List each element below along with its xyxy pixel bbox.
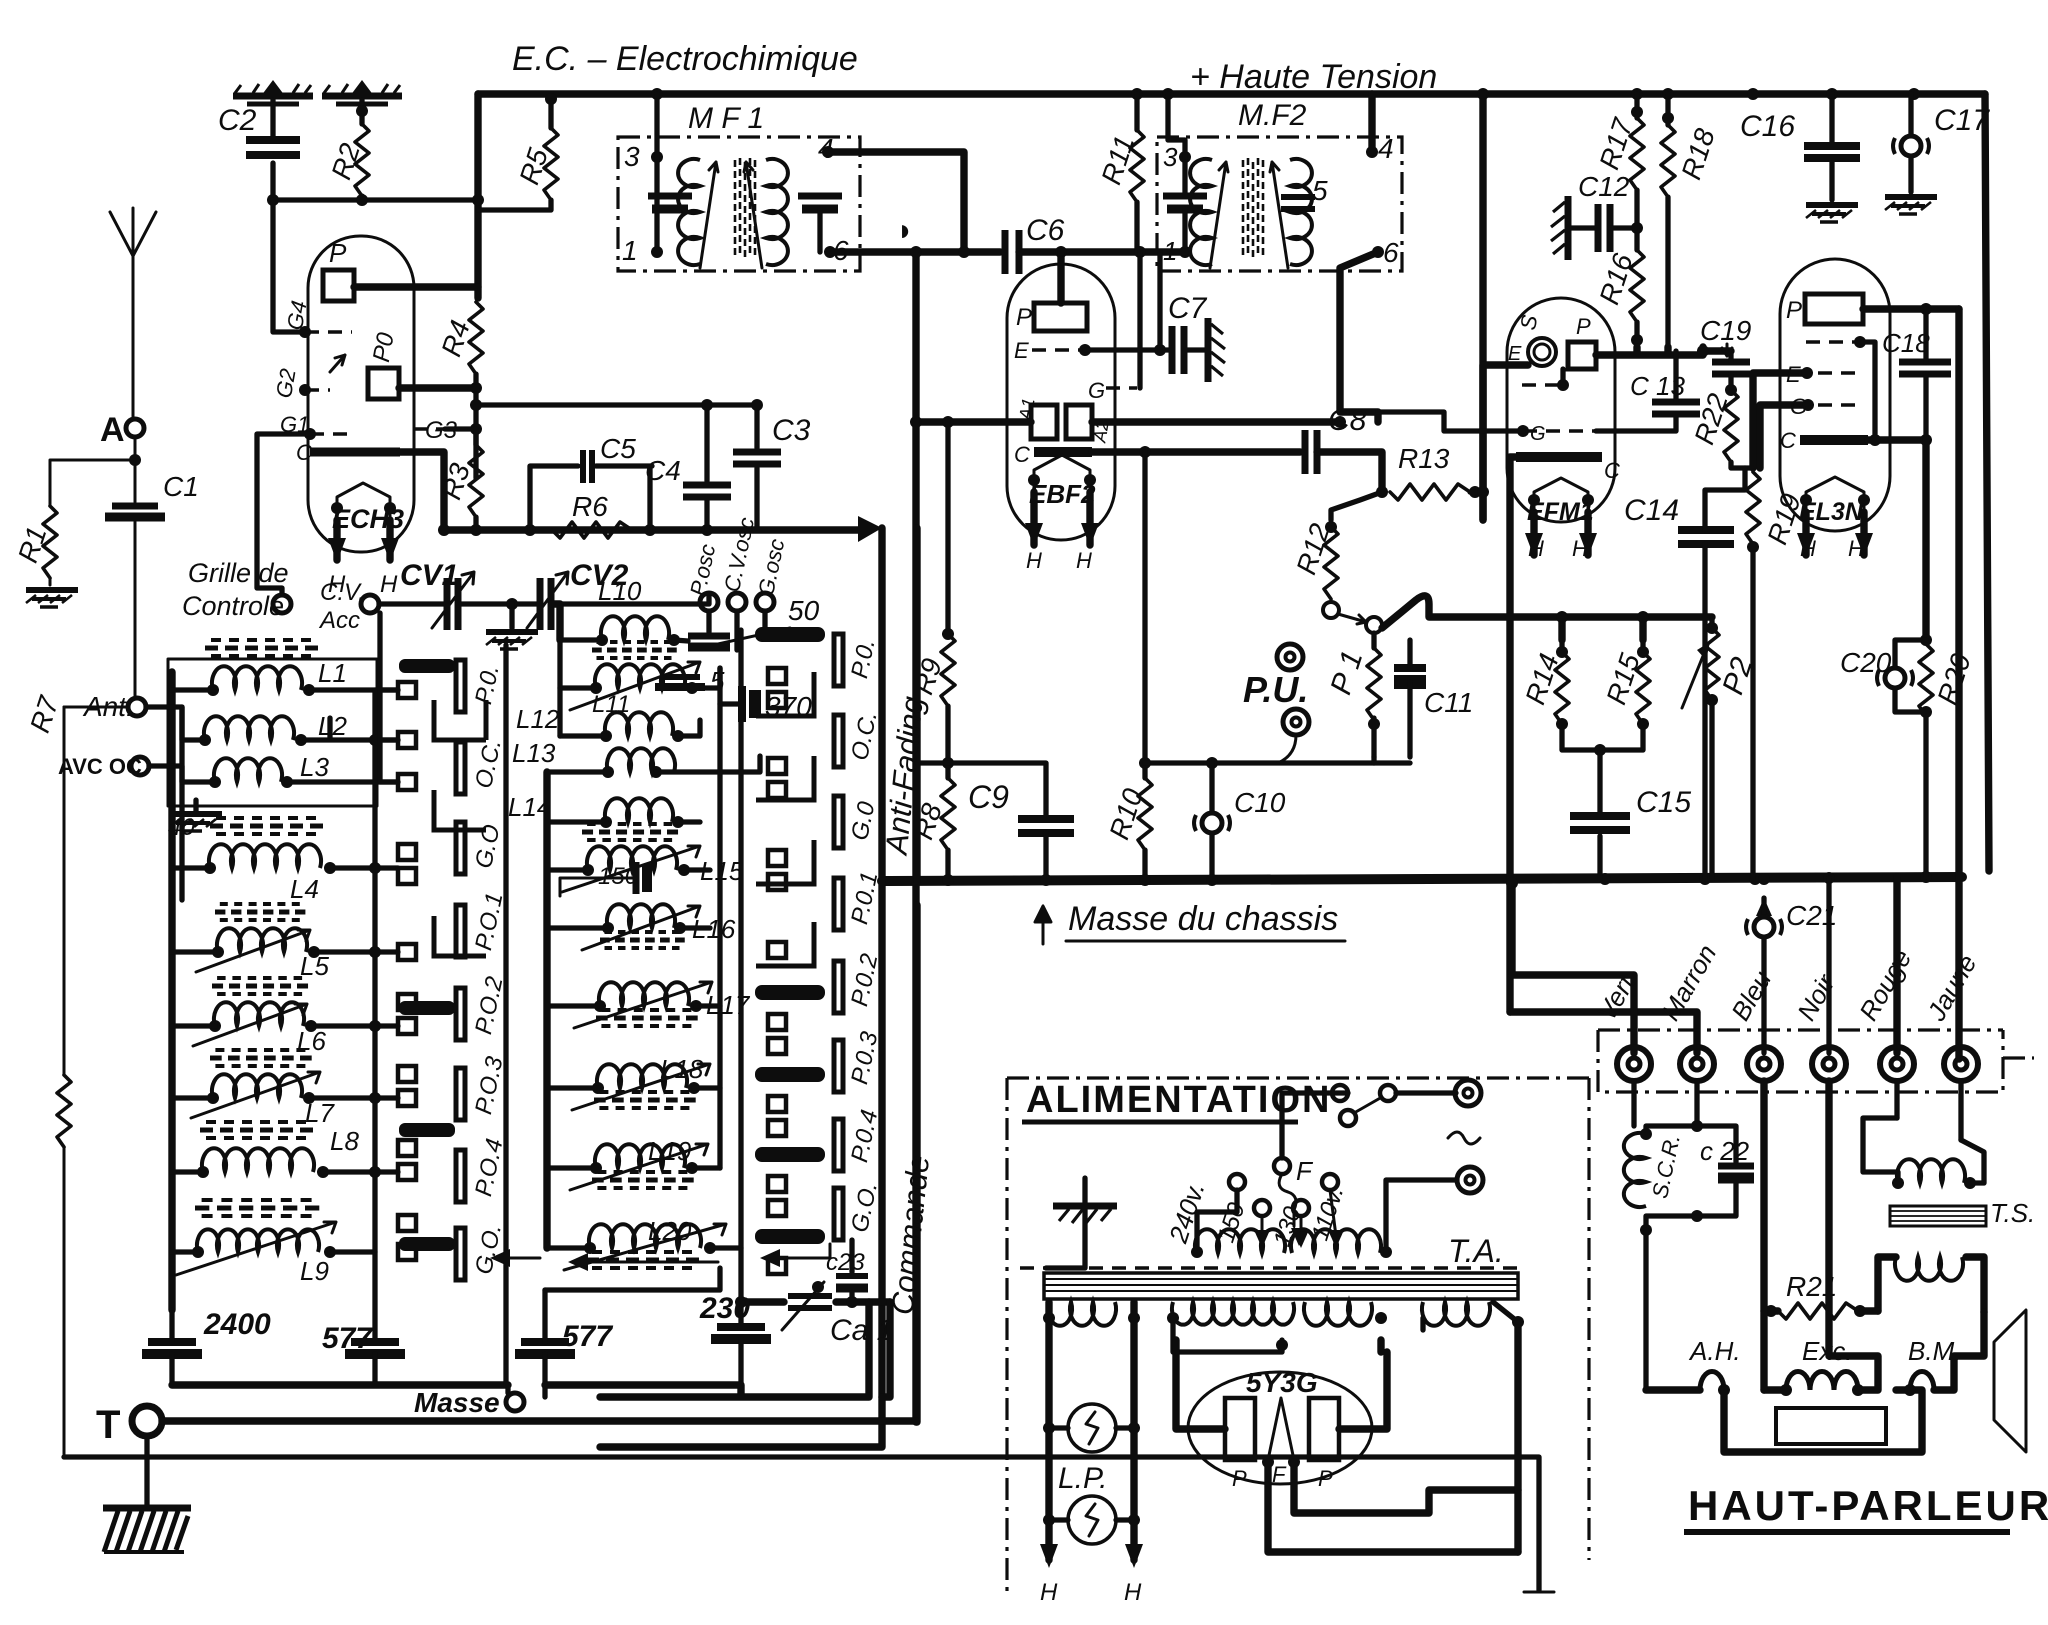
svg-text:5Y3G: 5Y3G	[1246, 1367, 1318, 1398]
cathode ECH3	[310, 448, 400, 457]
core L16	[600, 932, 690, 948]
resistor R12	[1331, 492, 1382, 520]
resistor R7	[63, 707, 66, 1457]
wire riser to CV	[380, 613, 398, 782]
variable capacitor CV2	[512, 594, 709, 604]
svg-text:E: E	[1508, 343, 1522, 365]
svg-text:P: P	[1232, 1466, 1247, 1491]
svg-text:T.S.: T.S.	[1990, 1198, 2035, 1228]
tube ECH3 envelope	[308, 236, 414, 552]
transformer MF1 box	[618, 137, 860, 271]
svg-text:L3: L3	[300, 752, 329, 782]
wire A2 right to EFM1 grid	[1092, 418, 1340, 425]
svg-text:C 13: C 13	[1630, 371, 1685, 401]
capacitor 370	[738, 686, 746, 722]
core L8	[200, 1122, 320, 1138]
heater arrows EFM1	[1534, 512, 1588, 555]
svg-text:G2: G2	[271, 367, 301, 400]
tuning arrows MF1	[700, 162, 762, 268]
svg-text:577: 577	[562, 1320, 613, 1353]
wire pin4 across	[828, 152, 964, 252]
svg-text:L2: L2	[318, 711, 347, 741]
wires down from terminals	[1634, 1081, 1961, 1140]
svg-text:C17: C17	[1934, 104, 1990, 137]
svg-text:Controle: Controle	[182, 591, 284, 621]
terminals	[1617, 1047, 1978, 1081]
coil MF2 secondary	[1290, 159, 1312, 265]
wire C11 bottom to row	[1374, 760, 1410, 765]
secondary LV right	[1422, 1302, 1490, 1326]
wire second lower	[64, 1457, 1539, 1590]
svg-text:R6: R6	[572, 491, 608, 522]
secondary LV left	[1048, 1302, 1116, 1326]
svg-text:C7: C7	[1168, 292, 1208, 325]
capacitor C13	[1652, 399, 1700, 406]
bus masse du chassis	[882, 877, 1962, 881]
electrode S	[1528, 338, 1556, 366]
capacitor MF2 right trimmer 5	[1281, 194, 1315, 200]
svg-text:C19: C19	[1700, 315, 1751, 346]
wire R14/R15 tops	[1382, 596, 1712, 640]
svg-text:A.H.: A.H.	[1688, 1336, 1741, 1366]
svg-text:c 22: c 22	[1700, 1136, 1750, 1166]
svg-text:R13: R13	[1398, 443, 1450, 474]
wire P0 to R4 junction	[399, 384, 476, 391]
switch contacts column left bank	[398, 682, 416, 1260]
svg-text:3: 3	[624, 141, 640, 172]
capacitor C17	[1908, 94, 1913, 192]
stator bars osc bank with labels	[834, 634, 843, 1240]
capacitor C19	[1712, 359, 1750, 366]
svg-text:1: 1	[622, 235, 638, 266]
fuse squiggle	[1448, 1132, 1480, 1144]
svg-text:C: C	[1780, 428, 1796, 453]
field coil S.C.R.	[1624, 1133, 1646, 1207]
svg-text:H: H	[1076, 548, 1092, 573]
svg-text:C20: C20	[1840, 647, 1892, 678]
core L6	[212, 978, 314, 994]
resistor R6	[552, 522, 632, 538]
ground above R2	[322, 80, 402, 104]
core TA	[1020, 1268, 1518, 1299]
svg-text:T: T	[96, 1403, 120, 1447]
trimmer 5	[660, 674, 700, 680]
coil L19 variable	[595, 1144, 685, 1168]
svg-text:C9: C9	[968, 779, 1009, 815]
heater arrows EL3N	[1806, 512, 1864, 555]
wire T drop to ground	[144, 1436, 149, 1505]
svg-text:3: 3	[1163, 142, 1178, 172]
wire plate node	[1596, 347, 1731, 355]
ground below R1	[26, 590, 78, 607]
coil L4	[209, 844, 321, 868]
field box	[1776, 1408, 1886, 1444]
core L1	[205, 640, 325, 656]
svg-text:C16: C16	[1740, 110, 1795, 143]
svg-text:C2: C2	[218, 104, 257, 137]
wire 230/C23 row	[741, 1298, 890, 1305]
capacitor C10	[1194, 813, 1230, 833]
core L4	[210, 818, 330, 834]
svg-text:C: C	[1014, 442, 1030, 467]
capacitor C2	[246, 136, 300, 144]
potentiometer P1	[1366, 617, 1382, 633]
stator bars left bank with labels	[456, 660, 465, 1280]
wire left riser x478	[474, 94, 481, 298]
rouge feed	[1893, 877, 1900, 1053]
capacitor C14	[1678, 526, 1734, 534]
svg-text:C14: C14	[1624, 494, 1679, 527]
wire plate right	[1863, 305, 1959, 312]
svg-text:40: 40	[168, 814, 195, 841]
cathode EL3N	[1800, 435, 1868, 445]
coil L6 variable	[214, 1002, 304, 1026]
electrode P square	[1568, 342, 1596, 369]
core L7	[210, 1050, 318, 1066]
svg-text:C6: C6	[1026, 214, 1065, 247]
svg-text:G: G	[1530, 423, 1546, 445]
plate P of ECH3	[323, 270, 354, 301]
resistor R22	[1724, 390, 1738, 462]
potentiometer P2	[1709, 617, 1714, 879]
svg-text:Masse du chassis: Masse du chassis	[1068, 900, 1338, 938]
riser x1483 from bus	[1479, 94, 1486, 520]
coil L20 variable	[589, 1224, 701, 1248]
lamp LP1	[1068, 1404, 1116, 1452]
ground below CV	[506, 598, 518, 610]
svg-text:ALIMENTATION: ALIMENTATION	[1026, 1079, 1331, 1121]
mains switch	[1332, 1085, 1348, 1101]
plate right 5Y3G	[1309, 1398, 1339, 1460]
mid rails osc bank	[543, 772, 550, 1248]
core L15	[582, 824, 684, 840]
svg-text:230: 230	[699, 1292, 750, 1325]
wire C2 stem	[270, 100, 275, 200]
wire MF2 pin3 riser	[1168, 94, 1185, 157]
resistor R8	[941, 778, 955, 850]
coil L17 variable	[599, 982, 689, 1006]
svg-text:P0: P0	[368, 330, 400, 364]
core L9	[195, 1200, 327, 1216]
svg-text:L5: L5	[300, 951, 329, 981]
svg-text:5: 5	[1312, 175, 1328, 206]
ground alim	[1046, 1178, 1085, 1268]
filament wires 5Y3G	[1262, 1456, 1274, 1468]
wire top HT bus	[478, 90, 1985, 97]
svg-text:CV1: CV1	[400, 559, 458, 592]
svg-text:P: P	[1016, 304, 1032, 331]
resistor R13	[1390, 484, 1470, 500]
switch contacts column osc bank	[768, 668, 786, 1274]
coil MF1 primary	[678, 159, 700, 265]
svg-text:A: A	[100, 411, 125, 449]
cathode EFM1	[1516, 452, 1602, 462]
tube EL3N envelope	[1780, 259, 1890, 531]
terminal mains 2	[1457, 1167, 1483, 1193]
pentagon EFM1	[1534, 478, 1588, 512]
resistor R5	[478, 99, 551, 210]
resistor R2	[355, 124, 369, 196]
diode A2	[1066, 405, 1092, 439]
coil L5 variable	[217, 928, 307, 952]
wire channel lower right	[913, 905, 920, 1422]
core L5	[215, 904, 311, 920]
coil L16 variable	[607, 904, 675, 928]
lamp LP2	[1068, 1496, 1116, 1544]
svg-text:P: P	[1786, 297, 1802, 324]
svg-text:L20: L20	[648, 1216, 692, 1246]
wire osc risers	[709, 611, 800, 650]
wire A1 left	[916, 418, 1031, 425]
svg-text:E: E	[1014, 338, 1029, 363]
heater arrows EBF2	[1034, 492, 1090, 545]
resistor R14	[1562, 640, 1600, 750]
capacitor C4	[704, 405, 709, 530]
svg-text:L18: L18	[660, 1054, 704, 1084]
svg-text:6: 6	[1383, 237, 1399, 268]
wire lower AVC row	[1145, 757, 1374, 763]
svg-text:HAUT-PARLEUR: HAUT-PARLEUR	[1688, 1482, 2048, 1529]
wire R2 stem	[359, 100, 364, 200]
variable capacitor CV1	[379, 601, 512, 606]
resistor R20	[1919, 644, 1933, 716]
svg-text:P: P	[1318, 1466, 1333, 1491]
gang arrows	[494, 1257, 540, 1260]
ground small left	[193, 800, 198, 812]
svg-text:E: E	[1786, 362, 1801, 387]
capacitor C11	[1394, 664, 1426, 672]
left rail	[168, 672, 175, 1310]
wire AVC branch	[917, 763, 1046, 815]
svg-text:Ca 1: Ca 1	[830, 1314, 893, 1347]
coil L9 variable	[197, 1229, 319, 1252]
wire ant links	[64, 659, 377, 806]
wire MF2 pin6 drop	[1340, 252, 1378, 422]
coil L12	[605, 712, 673, 736]
svg-text:L19: L19	[648, 1136, 691, 1166]
svg-text:F: F	[1296, 1156, 1314, 1186]
resistor R10	[1138, 778, 1152, 850]
resistor R4	[469, 302, 483, 374]
terminal grille	[273, 595, 291, 613]
capacitor C18	[1899, 359, 1951, 366]
wire cathode bias row	[444, 526, 868, 533]
svg-text:C15: C15	[1636, 786, 1691, 819]
transformer TA primary	[1195, 1229, 1285, 1253]
svg-text:C: C	[296, 440, 312, 465]
svg-text:c23: c23	[826, 1249, 865, 1276]
capacitor C21	[1758, 873, 1770, 885]
core L17	[596, 1010, 704, 1026]
wire G1 left and down to grille	[257, 434, 310, 594]
coil MF1 secondary	[766, 159, 788, 265]
pentagon EBF2	[1034, 455, 1090, 492]
long vertical from C6 wire	[912, 252, 919, 1422]
resistor R17	[1634, 94, 1639, 250]
resistor R15	[1600, 640, 1643, 750]
plate left 5Y3G	[1225, 1398, 1255, 1460]
coil L8	[202, 1148, 314, 1172]
svg-text:C8: C8	[1328, 404, 1367, 437]
wire 200 bus	[273, 197, 478, 202]
ground C7	[1208, 318, 1225, 382]
svg-text:C: C	[1604, 458, 1620, 483]
node top bus junctions	[651, 88, 663, 100]
capacitor C5	[530, 466, 652, 530]
core MF1	[735, 158, 755, 260]
vertical from C7 region down to R10	[1142, 452, 1147, 778]
secondary HT middle	[1172, 1302, 1372, 1326]
wire divider vertical	[503, 645, 508, 1385]
wire A down	[134, 437, 137, 698]
capacitor C3	[754, 405, 759, 528]
tube EFM1 envelope	[1507, 298, 1615, 522]
rotor bars osc bank	[756, 628, 824, 1243]
svg-text:C18: C18	[1882, 328, 1930, 358]
svg-text:C4: C4	[645, 455, 681, 486]
wire channel right	[913, 528, 920, 881]
vertical to R9	[945, 422, 950, 634]
svg-text:M F 1: M F 1	[688, 102, 764, 135]
svg-text:L7: L7	[305, 1098, 335, 1128]
svg-text:P: P	[329, 238, 347, 268]
ground hatched T	[103, 1508, 191, 1552]
masse arrow	[1035, 906, 1051, 944]
wire channel left	[878, 528, 885, 881]
svg-text:L1: L1	[318, 658, 347, 688]
svg-text:C12: C12	[1578, 171, 1630, 202]
terminal CV acc	[361, 595, 379, 613]
top dashed row	[1806, 340, 1858, 343]
svg-text:H: H	[1040, 1579, 1058, 1606]
resistor R19	[1746, 472, 1760, 544]
tube EBF2 envelope	[1007, 264, 1115, 540]
core L11	[592, 642, 682, 658]
capacitor MF1 right	[798, 193, 842, 200]
cathode EBF2	[1034, 447, 1092, 457]
core L20	[586, 1252, 706, 1268]
svg-text:L4: L4	[290, 874, 319, 904]
svg-text:L10: L10	[598, 576, 642, 606]
wire plate to riser	[354, 283, 478, 290]
svg-text:H: H	[1528, 536, 1544, 561]
coil L18 variable	[597, 1064, 687, 1088]
wire MF1 pin6 to C6	[830, 248, 1000, 255]
svg-text:C.V.: C.V.	[320, 579, 365, 606]
speaker cone	[1994, 1310, 2026, 1452]
coil L13	[607, 748, 675, 772]
svg-text:E.C. – Electrochimique: E.C. – Electrochimique	[512, 40, 858, 78]
svg-text:L.P.: L.P.	[1058, 1462, 1108, 1495]
electrode P0 square	[368, 368, 399, 399]
svg-text:C11: C11	[1424, 687, 1473, 718]
terminal mains 1	[1455, 1080, 1481, 1106]
capacitor C15	[1594, 744, 1606, 756]
LP lamp rails	[1043, 1312, 1055, 1324]
resistor R11	[1134, 94, 1139, 252]
svg-text:◗: ◗	[896, 214, 914, 247]
svg-text:H: H	[1026, 548, 1042, 573]
svg-text:H: H	[1848, 536, 1864, 561]
svg-text:EBF2: EBF2	[1029, 479, 1096, 509]
pentagon getter ECH3	[337, 483, 390, 520]
wire plate drop to output	[1955, 309, 1962, 1059]
svg-text:H: H	[1124, 1579, 1142, 1606]
resistor R3	[469, 445, 483, 517]
svg-text:C10: C10	[1234, 787, 1286, 818]
capacitor C6	[1002, 230, 1009, 274]
ground above C2	[233, 80, 313, 104]
capacitor C9	[1018, 815, 1074, 823]
capacitor C7	[1160, 252, 1208, 350]
coil L7 variable	[212, 1074, 302, 1098]
wire right edge drop	[1985, 94, 1989, 871]
svg-text:L8: L8	[330, 1126, 359, 1156]
wire osc rotor links	[717, 668, 722, 1168]
pentagon EL3N	[1806, 477, 1864, 512]
bottom wire of coil bank	[172, 1381, 508, 1388]
filament 5Y3G	[1268, 1398, 1294, 1460]
cathode bias network: vertical to C20/R20	[1922, 440, 1929, 640]
resistor R9	[941, 634, 955, 706]
wire channel lower left	[600, 881, 882, 1447]
svg-text:C1: C1	[163, 471, 199, 502]
TS primary wires	[1863, 1118, 1984, 1183]
diode A1	[1031, 405, 1057, 439]
TS secondary wires	[1878, 1257, 1984, 1312]
svg-text:H: H	[380, 571, 398, 598]
svg-text:F: F	[1272, 1462, 1287, 1487]
core L19	[592, 1172, 700, 1188]
svg-text:P.U.: P.U.	[1243, 669, 1308, 710]
wire MF2 pin4 to top bus	[1368, 94, 1375, 152]
svg-text:L13: L13	[512, 738, 556, 768]
wire rotor bus left bank	[372, 690, 377, 1342]
capacitor C1	[112, 503, 158, 510]
dashdot box strip	[1598, 1030, 2034, 1092]
svg-text:L9: L9	[300, 1256, 329, 1286]
wire C6 to MF2 pin1	[1019, 248, 1185, 255]
inner rail	[179, 707, 184, 900]
transformer MF2 box	[1157, 137, 1402, 271]
tap F	[1274, 1158, 1290, 1174]
core L18	[594, 1092, 702, 1108]
svg-text:H: H	[1800, 536, 1816, 561]
coil L15 variable	[587, 846, 677, 870]
wire G to C13	[1596, 417, 1676, 431]
svg-text:C3: C3	[772, 414, 811, 447]
heater arrows ECH3	[337, 520, 390, 560]
rotor bars left bank	[400, 660, 454, 1250]
capacitor C8	[1302, 430, 1309, 474]
capacitor MF1 left	[648, 193, 692, 200]
tuning arrows MF2	[1210, 162, 1288, 268]
resistor R1	[50, 460, 135, 585]
resistor R16	[1630, 250, 1644, 322]
wire G3 row long	[476, 402, 757, 407]
svg-text:C5: C5	[600, 433, 636, 464]
HT secondary to plates	[1167, 1312, 1179, 1324]
wire feeds to strip	[1510, 1012, 1697, 1053]
coil L1	[212, 666, 302, 690]
wire C8 to R13	[1317, 452, 1382, 492]
capacitor C20	[1877, 668, 1913, 688]
svg-text:Grille de: Grille de	[188, 558, 289, 588]
bottom rails tuner	[545, 1302, 890, 1397]
plate P of EBF2	[1034, 303, 1087, 331]
svg-text:Acc: Acc	[318, 607, 360, 634]
svg-text:L12: L12	[516, 704, 560, 734]
